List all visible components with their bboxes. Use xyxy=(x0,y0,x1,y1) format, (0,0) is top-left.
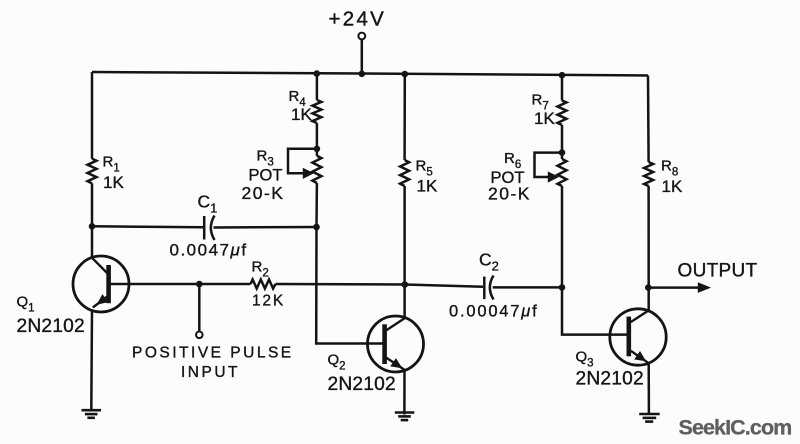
resistor R2 12K xyxy=(251,259,285,310)
svg-text:C2: C2 xyxy=(479,250,499,274)
wire C2 right lead xyxy=(493,286,562,289)
node junction R7-R6 wiper xyxy=(559,149,566,156)
svg-text:R8: R8 xyxy=(661,158,678,179)
svg-text:Q2: Q2 xyxy=(328,352,346,373)
wire Q1 emitter to ground xyxy=(90,311,93,410)
svg-text:20-K: 20-K xyxy=(242,183,285,203)
svg-text:0.00047μf: 0.00047μf xyxy=(449,303,538,321)
wire left branch vertical xyxy=(91,72,94,258)
potentiometer R3 20-K xyxy=(242,147,322,203)
svg-text:POSITIVE PULSE: POSITIVE PULSE xyxy=(132,345,294,362)
wire C2 left lead xyxy=(405,285,483,287)
ground Q1 xyxy=(82,410,102,418)
svg-text:C1: C1 xyxy=(198,192,218,216)
wire R7 to pot R6 xyxy=(561,125,564,159)
wire Q2 emitter to ground xyxy=(403,370,406,415)
transistor Q2 2N2102 xyxy=(328,316,424,395)
svg-text:1K: 1K xyxy=(103,173,124,192)
capacitor C2 xyxy=(449,250,538,321)
svg-text:2N2102: 2N2102 xyxy=(576,369,644,390)
wire R6 to C2 junction to Q3 base xyxy=(562,186,627,335)
node junction rail-R5 xyxy=(402,71,409,78)
svg-text:R2: R2 xyxy=(252,259,269,280)
svg-text:INPUT: INPUT xyxy=(181,364,240,381)
svg-text:1K: 1K xyxy=(662,177,683,196)
potentiometer R6 20-K xyxy=(488,150,567,204)
ground Q3 xyxy=(639,414,660,422)
svg-text:2N2102: 2N2102 xyxy=(17,316,85,337)
svg-text:1K: 1K xyxy=(291,105,312,124)
svg-text:POT: POT xyxy=(249,167,283,185)
wire C1 left lead xyxy=(92,226,203,227)
resistor R1 xyxy=(88,154,125,193)
svg-text:R1: R1 xyxy=(103,154,120,175)
wire R4 branch from rail xyxy=(316,74,319,100)
svg-text:0.0047μf: 0.0047μf xyxy=(170,240,248,259)
svg-text:+24V: +24V xyxy=(329,8,387,31)
svg-text:Q1: Q1 xyxy=(17,294,35,315)
svg-text:R3: R3 xyxy=(257,147,274,168)
resistor R4 xyxy=(289,88,322,124)
wire R5 branch from rail xyxy=(403,74,406,160)
svg-text:SeekIC.com: SeekIC.com xyxy=(679,416,792,440)
power terminal +24V xyxy=(329,8,387,74)
svg-text:1K: 1K xyxy=(417,177,438,196)
resistor R7 xyxy=(532,92,567,129)
svg-text:20-K: 20-K xyxy=(488,184,531,204)
wire R5 to Q2 collector xyxy=(403,186,406,318)
svg-text:R6: R6 xyxy=(504,150,521,171)
svg-text:2N2102: 2N2102 xyxy=(328,374,396,395)
wire R3 to C1 junction to Q2 base xyxy=(316,183,383,344)
node junction rail-R4 xyxy=(314,70,321,77)
wire R2 to Q2 collector node xyxy=(276,283,405,286)
output arrow xyxy=(648,261,757,293)
node junction rail-R7 xyxy=(559,72,566,79)
wire C1 right lead xyxy=(214,226,317,229)
svg-text:R5: R5 xyxy=(416,158,433,179)
svg-text:OUTPUT: OUTPUT xyxy=(678,261,758,282)
input terminal xyxy=(132,284,294,381)
node junction R2-R5-Q2 collector-C2 xyxy=(402,281,409,288)
svg-text:Q3: Q3 xyxy=(576,349,594,370)
node junction R4-R3 wiper xyxy=(314,146,321,153)
wire Q1 base to R2 xyxy=(108,283,251,286)
node junction input xyxy=(196,281,203,288)
node junction C1-R3 xyxy=(313,224,320,231)
wire top supply rail xyxy=(92,72,648,76)
node junction R1-C1-Q1 collector xyxy=(89,223,96,230)
transistor Q3 2N2102 xyxy=(576,309,667,390)
svg-text:12K: 12K xyxy=(252,293,285,310)
node junction C2-R6 xyxy=(559,284,566,291)
svg-text:1K: 1K xyxy=(534,109,555,128)
node junction rail-supply xyxy=(359,71,366,78)
node junction R8-output-Q3 collector xyxy=(645,284,652,291)
wire R7 branch from rail xyxy=(561,75,564,100)
wire R4 to pot R3 xyxy=(316,123,319,156)
resistor R5 xyxy=(400,158,438,196)
wire R8 to Q3 collector xyxy=(647,186,650,310)
ground Q2 xyxy=(395,413,415,421)
transistor Q1 2N2102 xyxy=(17,256,130,337)
wire Q3 emitter to ground xyxy=(647,363,650,413)
resistor R8 xyxy=(644,158,683,197)
wire R8 branch from rail xyxy=(647,76,650,163)
capacitor C1 xyxy=(170,192,248,260)
